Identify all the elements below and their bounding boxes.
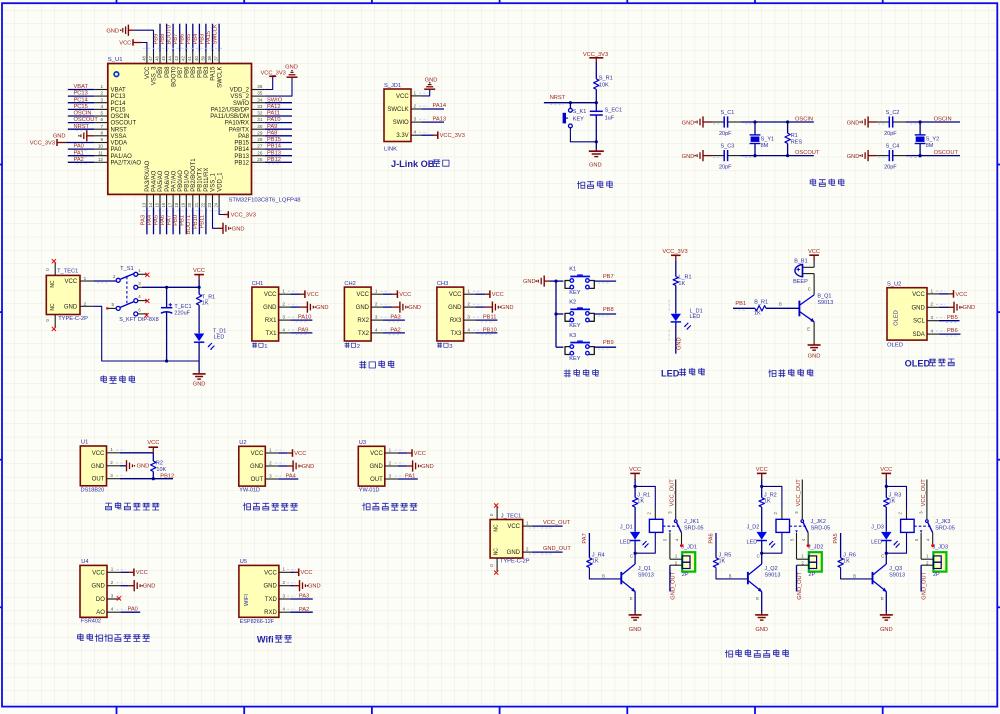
svg-text:GND: GND — [356, 305, 370, 311]
wire VCC — [475, 293, 485, 295]
svg-text:3: 3 — [467, 315, 470, 320]
connector J_TEC1 TYPE-C body — [490, 520, 523, 559]
wire to base — [766, 307, 799, 309]
svg-text:PA3: PA3 — [140, 215, 146, 225]
svg-text:37: 37 — [214, 55, 219, 60]
svg-text:1K: 1K — [678, 281, 685, 287]
MCU right pin 34 SWIO — [252, 102, 265, 104]
svg-text:GND: GND — [682, 154, 695, 160]
svg-text:SWCLK: SWCLK — [387, 107, 408, 113]
svg-text:NRST: NRST — [74, 124, 90, 130]
svg-text:PA7/AO: PA7/AO — [171, 170, 177, 192]
svg-text:RX2: RX2 — [357, 318, 369, 324]
MCU bottom pin 18 PB0/AO — [179, 194, 181, 207]
svg-text:BOOT1: BOOT1 — [186, 215, 192, 234]
wire NRST rail — [544, 102, 596, 104]
resistor L_R1 1K — [673, 277, 678, 286]
svg-text:PB1/AO: PB1/AO — [185, 170, 191, 192]
svg-text:OSCIN: OSCIN — [74, 111, 92, 117]
svg-text:DS18B20: DS18B20 — [81, 487, 105, 493]
wire GND — [383, 306, 393, 308]
svg-text:LED: LED — [747, 539, 758, 545]
svg-text:VCC_3V3: VCC_3V3 — [662, 249, 687, 255]
svg-text:GND: GND — [676, 337, 682, 350]
svg-text:GND: GND — [589, 162, 602, 168]
relay common pin 3 VCC_OUT — [801, 480, 803, 520]
svg-text:VDDA: VDDA — [111, 141, 128, 147]
svg-text:LINK: LINK — [384, 147, 397, 153]
wire rail to ground — [595, 142, 597, 150]
transistor J_Q1 S9013 — [620, 572, 622, 584]
svg-text:GND: GND — [285, 65, 298, 71]
CH3 pin 3 RX3 — [464, 319, 476, 321]
svg-text:GND: GND — [629, 627, 642, 633]
svg-text:PB12: PB12 — [267, 157, 281, 163]
CH3 pin 4 TX3 — [464, 332, 476, 334]
MCU top pin 46 PB9 — [159, 52, 161, 64]
svg-text:PB6: PB6 — [947, 328, 958, 334]
wire emitter to GND — [885, 592, 887, 613]
svg-text:OSCIN: OSCIN — [795, 117, 813, 123]
svg-text:8: 8 — [100, 130, 103, 135]
wire VCC pin48 — [141, 43, 147, 52]
svg-text:1: 1 — [100, 84, 103, 89]
svg-text:GND: GND — [847, 120, 860, 126]
svg-text:SWIO: SWIO — [267, 97, 283, 103]
wire net PA4 — [153, 207, 155, 234]
wire PA4 — [278, 478, 298, 480]
wire GND — [120, 585, 129, 587]
connector pin 1 stub — [797, 558, 809, 560]
svg-text:PB11: PB11 — [483, 315, 497, 321]
svg-text:GND: GND — [91, 464, 105, 470]
wire net SWCLK — [218, 24, 220, 52]
wire PB5 — [939, 320, 960, 322]
svg-text:OUT: OUT — [251, 477, 264, 483]
svg-text:PA0: PA0 — [111, 147, 123, 153]
wire net PA1 — [68, 155, 95, 157]
svg-text:1K: 1K — [754, 311, 761, 317]
svg-text:9: 9 — [100, 137, 103, 142]
capacitor S_C2 20pF — [877, 121, 889, 123]
ground symbol — [392, 306, 400, 308]
resistor S_R1 10K — [594, 79, 599, 89]
svg-text:VCC: VCC — [808, 249, 820, 255]
wire resistor to LED — [675, 285, 677, 313]
svg-text:22: 22 — [200, 202, 205, 207]
wire net PB5 — [192, 24, 194, 52]
U2 pin 2 GND — [265, 465, 278, 467]
capacitor S_EC1 1uF — [590, 110, 603, 112]
svg-text:4: 4 — [931, 329, 934, 334]
svg-text:C: C — [808, 286, 811, 291]
svg-text:VCC_OUT: VCC_OUT — [543, 520, 571, 526]
connector J_JD1 body — [682, 552, 695, 571]
svg-text:PB8: PB8 — [160, 34, 166, 45]
wire rail to GND — [198, 361, 200, 373]
svg-text:C: C — [630, 554, 633, 559]
S_U2 pin 2 GND — [927, 306, 939, 308]
svg-text:TX3: TX3 — [450, 331, 462, 337]
svg-text:4: 4 — [467, 327, 470, 332]
connector pin 2 stub — [670, 564, 682, 566]
svg-text:1: 1 — [414, 90, 417, 95]
svg-text:PA0: PA0 — [74, 144, 84, 150]
LED J_D3 — [881, 532, 891, 540]
svg-text:20pF: 20pF — [884, 131, 897, 137]
svg-text:GND: GND — [232, 226, 245, 232]
junction coil return — [760, 552, 763, 555]
svg-text:GND: GND — [425, 77, 438, 83]
relay actuation dashed link — [914, 525, 931, 527]
resistor B_R1 1K — [755, 306, 766, 311]
CH1 pin 2 GND — [279, 306, 291, 308]
svg-text:VSS_1: VSS_1 — [211, 172, 217, 191]
wire net SWIO — [265, 102, 292, 104]
svg-text:VCC_OUT: VCC_OUT — [921, 479, 927, 507]
svg-text:GND: GND — [448, 305, 462, 311]
svg-text:PB8: PB8 — [165, 66, 171, 78]
wire bus to key — [556, 346, 563, 348]
wire VCC — [291, 571, 295, 573]
svg-text:KEY: KEY — [569, 356, 581, 362]
wire PA13 — [422, 121, 445, 123]
resistor R2 10K pullup — [151, 461, 156, 472]
svg-text:2: 2 — [414, 103, 417, 108]
svg-text:38: 38 — [207, 55, 212, 60]
MCU right pin 25 PB12 — [252, 161, 265, 163]
T_S1 pin 4 stub no-connect — [138, 300, 148, 302]
svg-text:GND: GND — [911, 305, 925, 311]
svg-text:2: 2 — [282, 302, 285, 307]
svg-text:GND: GND — [250, 464, 264, 470]
svg-text:3.3V: 3.3V — [396, 133, 408, 139]
svg-text:PA10/RX: PA10/RX — [225, 121, 249, 127]
MCU left pin 8 VSSA — [94, 135, 108, 137]
svg-text:44: 44 — [168, 55, 173, 60]
title pressure module — [78, 634, 84, 641]
S_JD1 pin 2 SWCLK — [411, 108, 422, 110]
svg-text:46: 46 — [154, 55, 159, 60]
svg-text:2P: 2P — [808, 572, 815, 578]
svg-text:K1: K1 — [569, 267, 576, 273]
svg-text:LED: LED — [620, 539, 631, 545]
svg-text:GND: GND — [808, 354, 821, 360]
junction node — [569, 101, 572, 104]
svg-text:GND: GND — [263, 305, 277, 311]
MCU right pin 36 VDD_2 — [252, 89, 265, 91]
wire PA10 — [290, 319, 312, 321]
wire net VBAT — [68, 89, 95, 91]
svg-text:48: 48 — [141, 55, 146, 60]
ground symbol relay channel — [634, 613, 636, 615]
svg-text:S_C4: S_C4 — [886, 144, 900, 150]
S_JD1 pin 4 3.3V — [411, 134, 422, 136]
svg-text:GND: GND — [143, 584, 156, 590]
MCU right pin 33 PA12/USB/DP — [252, 108, 265, 110]
svg-text:2: 2 — [526, 547, 529, 552]
svg-text:20pF: 20pF — [719, 165, 732, 171]
wire PA3 — [383, 319, 405, 321]
svg-text:S_KFT DIP-8X8: S_KFT DIP-8X8 — [119, 317, 158, 323]
MCU top pin 44 BOOT0 — [172, 52, 174, 64]
svg-text:GND: GND — [64, 304, 78, 310]
wire net PA3 — [146, 207, 148, 234]
title power circuit — [101, 376, 107, 383]
U4 DO no-connect — [107, 598, 117, 600]
svg-text:J_Q3: J_Q3 — [889, 566, 902, 572]
relay pin 4 stub — [681, 533, 683, 545]
MCU left pin 2 PC13 — [94, 95, 108, 97]
wire TXD PA3 — [291, 598, 313, 600]
svg-text:39: 39 — [200, 55, 205, 60]
svg-text:LED: LED — [871, 539, 882, 545]
wire GND — [475, 306, 485, 308]
svg-text:PA12/USB/DP: PA12/USB/DP — [211, 108, 249, 114]
svg-text:25: 25 — [257, 157, 263, 162]
MCU top pin 47 VSS_3 — [153, 52, 155, 64]
svg-text:B: B — [779, 301, 782, 306]
svg-text:TYPE-C-2P: TYPE-C-2P — [58, 316, 88, 322]
ground symbol power — [198, 373, 200, 374]
wire node to relay coil — [886, 486, 906, 509]
relay common pin 3 VCC_OUT — [675, 480, 677, 520]
svg-text:VCC: VCC — [880, 467, 892, 473]
wire LED to collector — [634, 541, 636, 565]
svg-text:T_EC1: T_EC1 — [174, 304, 191, 310]
svg-text:VCC: VCC — [370, 451, 383, 457]
svg-text:PB11: PB11 — [199, 215, 205, 229]
svg-text:KEY: KEY — [573, 116, 584, 122]
svg-text:PC14: PC14 — [74, 97, 88, 103]
wire LED to GND — [675, 322, 677, 354]
connector J_JD2 body — [809, 552, 822, 571]
svg-text:3: 3 — [110, 473, 113, 478]
wire net PB8 — [166, 24, 168, 52]
MCU right pin 35 VSS_2 — [252, 95, 265, 97]
wire GND — [398, 465, 407, 467]
MCU left pin 4 PC15 — [94, 108, 108, 110]
svg-text:GND: GND — [523, 279, 536, 285]
wire coil bottom to collector node — [635, 532, 655, 553]
wire net BOOT0 — [172, 24, 174, 52]
relay pin 4 stub — [932, 533, 934, 545]
relay armature — [803, 522, 808, 533]
junction — [786, 120, 789, 123]
svg-text:3: 3 — [111, 593, 114, 598]
svg-text:GND: GND — [507, 550, 521, 556]
svg-text:36: 36 — [257, 84, 263, 89]
svg-text:VCC: VCC — [193, 268, 205, 274]
wire net PA10 — [265, 122, 292, 124]
wire VDDA — [65, 142, 94, 144]
power port VCC — [485, 293, 490, 295]
wire coil bottom to collector node — [762, 532, 782, 553]
wire OSCIN rail — [740, 121, 814, 123]
svg-text:3: 3 — [389, 473, 392, 478]
wire GND — [290, 306, 300, 308]
connector J_JD3 body — [933, 552, 946, 571]
svg-text:OSCIN: OSCIN — [111, 114, 130, 120]
title temperature module — [106, 503, 112, 510]
svg-text:27: 27 — [257, 144, 263, 149]
wire VCC node — [885, 479, 887, 498]
svg-text:B: B — [729, 574, 732, 579]
resistor T_R1 1K — [196, 294, 201, 305]
svg-text:10K: 10K — [599, 82, 609, 88]
svg-text:YW-01D: YW-01D — [239, 488, 260, 494]
resistor R1 RES feedback — [787, 122, 789, 133]
svg-text:1: 1 — [111, 567, 114, 572]
svg-text:PA5/AO: PA5/AO — [158, 170, 164, 192]
wire net PC15 — [68, 108, 95, 110]
svg-text:PA4: PA4 — [147, 215, 153, 225]
svg-text:S_EC1: S_EC1 — [605, 108, 622, 114]
svg-text:3: 3 — [414, 117, 417, 122]
svg-text:10K: 10K — [156, 467, 166, 473]
svg-text:S_Y1: S_Y1 — [761, 137, 774, 143]
svg-text:GND: GND — [302, 464, 315, 470]
svg-text:8M: 8M — [761, 143, 769, 149]
junction — [554, 280, 557, 283]
svg-text:PB13: PB13 — [267, 150, 281, 156]
relay J_JK1 SRD-05 coil — [649, 519, 663, 532]
svg-text:PB2/BOOT1: PB2/BOOT1 — [191, 158, 197, 192]
svg-text:GND: GND — [92, 584, 106, 590]
U2 pin 1 VCC — [265, 452, 278, 454]
U1 pin 2 GND — [107, 465, 120, 467]
svg-text:S_C1: S_C1 — [721, 110, 735, 116]
svg-text:11: 11 — [98, 150, 103, 155]
svg-text:4: 4 — [375, 327, 378, 332]
wire node to cap — [595, 103, 597, 111]
T_TEC1 shell pin bottom no-connect — [54, 315, 56, 328]
pushbutton S_K1 KEY — [569, 108, 573, 112]
svg-text:220uF: 220uF — [174, 310, 190, 316]
resistor J_R6 1K — [838, 558, 843, 568]
svg-text:S_R1: S_R1 — [599, 76, 613, 82]
svg-text:41: 41 — [187, 55, 192, 60]
transistor J_Q3 S9013 — [872, 572, 874, 584]
svg-text:J_D2: J_D2 — [747, 525, 760, 531]
svg-text:SWIO: SWIO — [393, 120, 409, 126]
title crystal circuit — [810, 179, 816, 186]
svg-text:GND_OUT: GND_OUT — [670, 571, 676, 599]
svg-text:PB6: PB6 — [185, 66, 191, 78]
svg-text:J_JD2: J_JD2 — [808, 545, 824, 551]
wire net PB10 — [198, 207, 200, 234]
wire base — [716, 568, 748, 579]
svg-text:PA3: PA3 — [390, 315, 400, 321]
MCU bottom pin 14 PA4/AO — [153, 194, 155, 207]
junction — [165, 359, 168, 362]
MCU bottom pin 13 PA3/RX/AO — [146, 194, 148, 207]
svg-text:GND: GND — [316, 305, 329, 311]
svg-text:4: 4 — [111, 607, 114, 612]
svg-text:PB10: PB10 — [193, 215, 199, 229]
svg-text:2P: 2P — [682, 572, 689, 578]
MCU left pin 5 OSCIN — [94, 115, 108, 117]
wire net PB1 — [185, 207, 187, 234]
svg-text:40: 40 — [194, 55, 199, 60]
svg-text:VCC: VCC — [92, 451, 105, 457]
buzzer B_B1 BEEP — [795, 264, 803, 276]
svg-text:20pF: 20pF — [884, 165, 897, 171]
svg-text:PA6/AO: PA6/AO — [165, 170, 171, 192]
MCU bottom pin 20 PB2/BOOT1 — [192, 194, 194, 207]
svg-text:GND: GND — [501, 305, 514, 311]
MCU right pin 32 PA11/USB/DM — [252, 115, 265, 117]
svg-text:SRD-05: SRD-05 — [684, 526, 704, 532]
wire net PA12 — [265, 108, 292, 110]
wire VCC stem — [198, 280, 200, 294]
power port VCC — [288, 452, 293, 454]
wire GND_OUT — [669, 565, 671, 591]
svg-text:3: 3 — [931, 315, 934, 320]
svg-text:PB5: PB5 — [947, 315, 958, 321]
wire RXD PA2 — [291, 611, 313, 613]
power port VCC — [393, 293, 398, 295]
svg-text:PA0: PA0 — [128, 606, 138, 612]
svg-text:J_JK3: J_JK3 — [935, 519, 950, 525]
svg-text:GND: GND — [682, 120, 695, 126]
wire PA1 — [398, 478, 418, 480]
svg-text:DO: DO — [96, 597, 105, 603]
svg-text:VCC: VCC — [629, 467, 641, 473]
wire key to PB8 — [594, 313, 616, 315]
svg-text:OSCOUT: OSCOUT — [934, 150, 959, 156]
resistor J_R2 1K — [759, 498, 764, 507]
power port VCC_3V3 at VDD_2 — [269, 75, 276, 77]
svg-text:PA6: PA6 — [709, 533, 715, 543]
T_TEC1 shell pin top no-connect — [54, 262, 56, 275]
svg-text:VCC_3V3: VCC_3V3 — [440, 133, 465, 139]
svg-text:PB15: PB15 — [234, 141, 249, 147]
MCU bottom pin 21 PB10/TX — [198, 194, 200, 207]
junction — [919, 120, 922, 123]
svg-text:TX1: TX1 — [265, 331, 277, 337]
crystal S_Y1 8M — [754, 122, 756, 135]
svg-text:PC14: PC14 — [111, 101, 127, 107]
S_JD1 pin 1 VCC — [411, 95, 422, 97]
MCU left pin 9 VDDA — [94, 142, 108, 144]
svg-text:VCC: VCC — [507, 524, 520, 530]
wire PB1 to base resistor — [733, 307, 755, 309]
label serial port 1 — [252, 343, 256, 348]
svg-text:PB7: PB7 — [603, 274, 614, 280]
title level module 1 — [243, 503, 251, 510]
svg-text:E: E — [881, 596, 884, 601]
U4 pin 2 GND — [107, 585, 120, 587]
svg-text:6: 6 — [100, 117, 103, 122]
U4 pin 4 AO — [107, 611, 120, 613]
wire R1 to LED — [198, 305, 200, 333]
svg-text:45: 45 — [161, 55, 166, 60]
wire emitter to GND — [761, 592, 763, 613]
wire VSS_2 to GND — [265, 77, 292, 96]
U4 pin 1 VCC — [107, 571, 120, 573]
power port VCC U4 — [129, 571, 134, 573]
svg-text:OSCIN: OSCIN — [934, 117, 952, 123]
svg-text:35: 35 — [257, 91, 263, 96]
svg-text:S_JD1: S_JD1 — [384, 83, 401, 89]
wire GND to bus — [550, 280, 556, 282]
svg-text:PA12: PA12 — [267, 104, 281, 110]
svg-text:PB10/TX: PB10/TX — [198, 168, 204, 192]
svg-text:VCC: VCC — [65, 279, 78, 285]
svg-text:SWIO: SWIO — [233, 101, 249, 107]
svg-text:7: 7 — [100, 124, 103, 129]
